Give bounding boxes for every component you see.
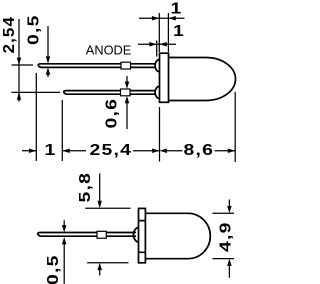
dimension 1 (upper, flange width) (139, 16, 185, 21)
svg-text:0,5: 0,5 (44, 254, 62, 284)
dimension 0,5 line (46, 26, 51, 77)
cathode lead (64, 91, 156, 95)
lead collar (bottom view) (97, 231, 106, 238)
svg-text:8,6: 8,6 (184, 141, 215, 159)
extension line (flange right) (167, 13, 169, 52)
extension line (anode lead end) (35, 73, 37, 161)
svg-text:2,54: 2,54 (1, 16, 18, 54)
LED body with dome (bottom view) (145, 213, 210, 258)
anode lead collar (121, 62, 131, 69)
svg-text:0,5: 0,5 (24, 14, 42, 45)
dimension 1 (lower, meniscus offset) (138, 42, 176, 47)
anode lead bell at flange (155, 59, 160, 71)
cathode lead bell at flange (155, 86, 160, 98)
LED body with dome (top view) (169, 58, 236, 101)
flange (top view) (160, 53, 169, 102)
extension line (flange left) (158, 13, 160, 52)
lead (bottom view) (38, 233, 136, 237)
svg-text:1: 1 (173, 22, 185, 40)
anode lead (38, 64, 156, 68)
dimension 8,6 (160, 148, 236, 153)
flange (bottom view) (139, 208, 146, 262)
svg-text:4,9: 4,9 (216, 221, 234, 252)
dimension 4,9 (213, 200, 235, 278)
dimension 0,6 (collar thickness) (125, 76, 130, 129)
dimension 1 (lead length difference) (22, 148, 36, 153)
lead bell at flange (bottom view) (133, 227, 138, 242)
svg-text:ANODE: ANODE (86, 43, 132, 58)
cathode lead collar (121, 89, 131, 96)
svg-text:25,4: 25,4 (90, 141, 133, 159)
svg-text:0,6: 0,6 (102, 98, 120, 129)
dimension 0,5 (bottom view) (62, 220, 66, 284)
extension line (meniscus face) (156, 41, 158, 57)
svg-text:1: 1 (45, 141, 57, 159)
extension line (flange left face, to bottom dim row) (159, 107, 161, 162)
extension line (dome tip) (234, 92, 236, 162)
extension line (cathode lead end) (61, 100, 63, 161)
dimension 25,4 (62, 148, 159, 153)
flange division lines (139, 221, 146, 253)
dimension 5,8 (85, 174, 130, 276)
svg-text:1: 1 (171, 0, 183, 17)
svg-text:5,8: 5,8 (76, 172, 94, 203)
dimension 2,54 line (12, 19, 61, 102)
